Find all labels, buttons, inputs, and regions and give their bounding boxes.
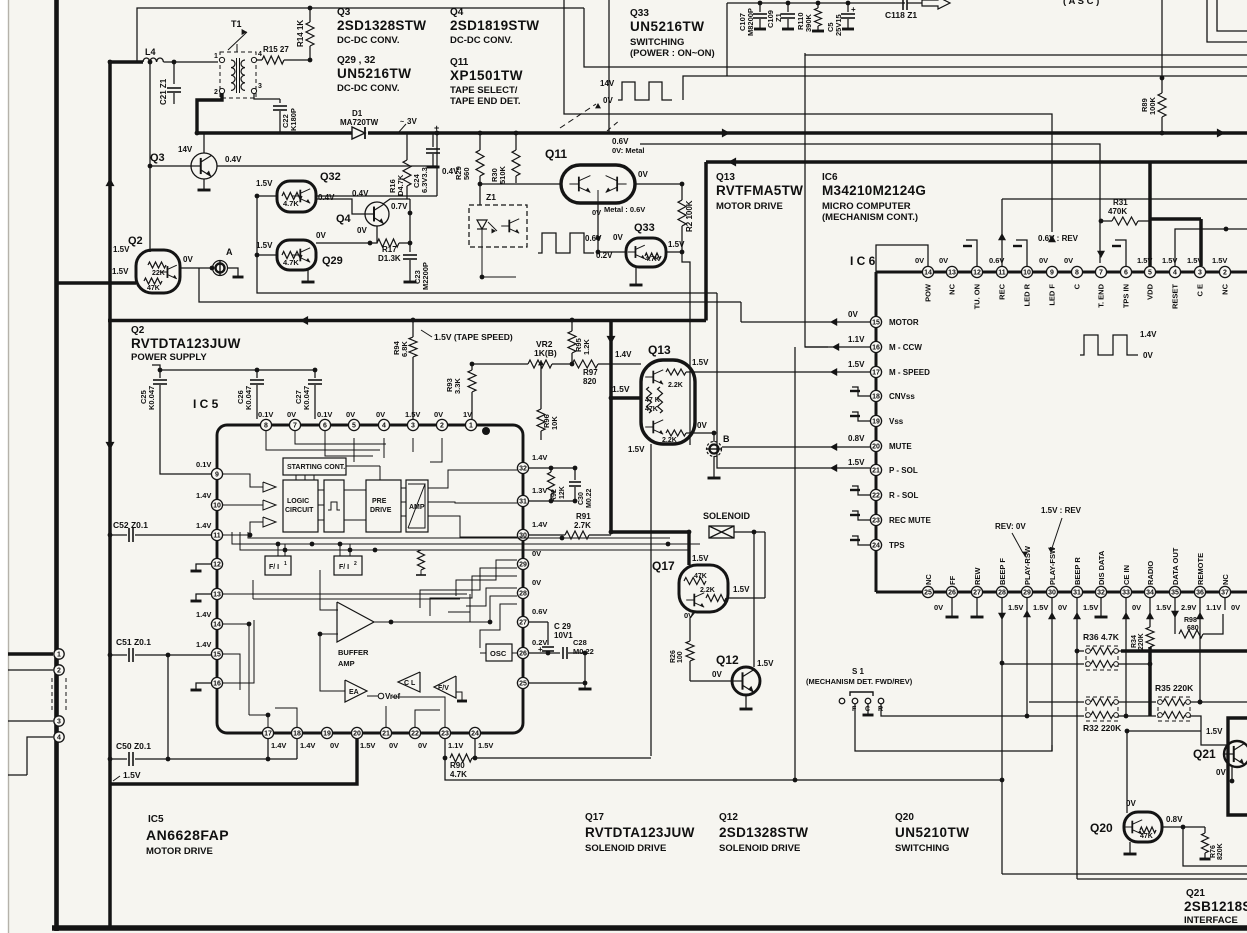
IC5 bus h1 — [232, 532, 700, 544]
wire Q21 em — [1231, 767, 1233, 781]
wire y55 — [805, 53, 1247, 55]
svg-text:0V: 0V — [389, 741, 398, 750]
IC6 pin 28 BEEP F — [996, 586, 1007, 597]
svg-text:R2 100K: R2 100K — [685, 200, 694, 232]
svg-text:560: 560 — [462, 167, 471, 180]
svg-text:390K: 390K — [804, 13, 813, 32]
squarewave IC6 — [1080, 335, 1138, 355]
svg-text:I C 5: I C 5 — [193, 397, 219, 411]
wire x690 down — [682, 252, 690, 445]
svg-text:BEEP R: BEEP R — [1073, 557, 1082, 585]
wire Q12 base — [690, 680, 732, 682]
svg-text:BEEP F: BEEP F — [998, 558, 1007, 585]
svg-text:MOTOR DRIVE: MOTOR DRIVE — [716, 201, 783, 212]
svg-text:C50 Z0.1: C50 Z0.1 — [116, 741, 151, 751]
svg-text:0V: 0V — [684, 611, 693, 620]
svg-text:0.8V: 0.8V — [848, 434, 865, 443]
internal resistor — [418, 550, 425, 570]
svg-text:K0.047: K0.047 — [147, 386, 156, 410]
svg-text:Q3: Q3 — [337, 7, 351, 18]
IC5 pin 6 — [319, 419, 330, 430]
wire Q4 collector — [383, 199, 410, 204]
svg-text:47K: 47K — [645, 406, 658, 413]
IC6 pin 11 REC — [996, 266, 1007, 277]
svg-text:0V: Metal: 0V: Metal — [612, 146, 645, 155]
wire T1 pin2 thick — [197, 93, 222, 133]
capacitor C118 Z1 — [902, 0, 904, 10]
svg-text:1.5V : REV: 1.5V : REV — [1041, 506, 1082, 515]
svg-text:+: + — [851, 5, 856, 14]
IC5 pin 12 — [211, 558, 222, 569]
svg-text:Q17: Q17 — [652, 559, 675, 573]
IC6 pin 29 PLAY-RSW — [1021, 586, 1032, 597]
wire Q20 base — [1126, 731, 1128, 813]
svg-text:1.5V: 1.5V — [112, 267, 129, 276]
svg-text:4: 4 — [1173, 270, 1177, 277]
resistor R2 100K — [681, 184, 683, 200]
svg-text:23: 23 — [441, 731, 449, 738]
IC5 wire 10 — [223, 504, 263, 506]
wire R36 net — [1079, 650, 1084, 652]
switch S1 — [839, 698, 845, 704]
wire Q4 base — [316, 199, 365, 214]
svg-text:6.3V3.3: 6.3V3.3 — [420, 167, 429, 193]
IC6 pin 8 C — [1071, 266, 1082, 277]
svg-text:15: 15 — [213, 652, 221, 659]
svg-text:Z1: Z1 — [486, 192, 496, 202]
transistor pack Q32 — [277, 181, 316, 212]
svg-text:4.7K: 4.7K — [283, 258, 299, 267]
wire Q2 out 0V — [180, 267, 212, 269]
capacitor C22 K180P — [279, 99, 281, 103]
resistor pair R35 220K — [1158, 697, 1190, 721]
svg-text:3: 3 — [411, 423, 415, 430]
IC5 pin 7 — [289, 419, 300, 430]
svg-text:470K: 470K — [1108, 207, 1127, 216]
svg-text:DC-DC CONV.: DC-DC CONV. — [450, 35, 512, 46]
transistor pack Q13 — [641, 360, 695, 444]
svg-text:0V: 0V — [532, 578, 541, 587]
svg-text:C52 Z0.1: C52 Z0.1 — [113, 520, 148, 530]
svg-text:4: 4 — [382, 423, 386, 430]
wire C26 to pin6 — [257, 418, 325, 420]
wire pin32 R92 — [529, 467, 551, 469]
wire pin28 — [1001, 598, 1003, 874]
IC5 pin 22 — [409, 727, 420, 738]
block BUFFER AMP — [337, 602, 374, 642]
IC6 pin 26 FF — [946, 586, 957, 597]
thick wire to L4 — [108, 60, 143, 63]
wire y758 long — [475, 757, 651, 759]
svg-text:30: 30 — [519, 533, 527, 540]
IC6 pin 33 CE IN — [1120, 586, 1131, 597]
svg-text:R76: R76 — [1210, 845, 1217, 858]
svg-text:VDD: VDD — [1146, 283, 1155, 299]
IC5 pin 17 — [262, 727, 273, 738]
wire Q17 right — [728, 597, 765, 599]
svg-text:2: 2 — [214, 89, 218, 96]
IC5 wire pin15 link — [190, 646, 200, 648]
svg-text:MUTE: MUTE — [889, 442, 912, 451]
svg-text:DIS DATA: DIS DATA — [1097, 550, 1106, 585]
block STARTING CONT — [283, 458, 346, 475]
transistor Q12 — [732, 667, 760, 695]
svg-text:Q13: Q13 — [648, 343, 671, 357]
svg-text:1.2K: 1.2K — [582, 339, 591, 355]
svg-text:0V: 0V — [357, 226, 367, 235]
inductor L4 — [143, 58, 163, 62]
flag pin22 — [852, 486, 870, 495]
wire Q20 out down — [1183, 827, 1247, 866]
svg-text:M - CCW: M - CCW — [889, 343, 922, 352]
svg-text:6: 6 — [1124, 270, 1128, 277]
svg-text:30: 30 — [1048, 590, 1056, 597]
svg-text:(POWER : ON~ON): (POWER : ON~ON) — [630, 48, 715, 59]
wire T1 pin3 to C22 — [254, 93, 280, 99]
svg-text:1.5V: 1.5V — [1206, 727, 1223, 736]
svg-text:1.5V (TAPE SPEED): 1.5V (TAPE SPEED) — [434, 332, 513, 342]
IC5 pin 26 — [517, 647, 528, 658]
IC5 pin 4 — [378, 419, 389, 430]
wire y67 — [584, 8, 1247, 67]
svg-text:47 K: 47 K — [645, 397, 660, 404]
svg-text:Q20: Q20 — [1090, 821, 1113, 835]
IC5 wire amp out — [428, 470, 517, 488]
svg-text:25: 25 — [924, 590, 932, 597]
svg-text:6: 6 — [323, 423, 327, 430]
svg-text:TPS IN: TPS IN — [1122, 284, 1131, 308]
svg-text:14V: 14V — [178, 145, 193, 154]
resistor pair R36 4.7K — [1086, 646, 1118, 670]
svg-text:R32 220K: R32 220K — [1083, 723, 1122, 733]
capacitor C5 25V15 — [846, 1, 851, 6]
svg-text:0V: 0V — [434, 410, 443, 419]
IC6 pin 36 REMOTE — [1194, 586, 1205, 597]
IC6 pin 25 NC — [922, 586, 933, 597]
svg-text:REMOTE: REMOTE — [1196, 553, 1205, 585]
svg-text:0.6V : REV: 0.6V : REV — [1038, 234, 1079, 243]
wire pin34 R34 — [1149, 598, 1151, 627]
flag pin24 — [852, 536, 870, 545]
IC5 pin 11 — [211, 529, 222, 540]
capacitor C23 M2200P — [409, 243, 411, 252]
block PRE DRIVE — [366, 480, 401, 532]
svg-text:1.5V: 1.5V — [256, 179, 273, 188]
svg-text:2.9V: 2.9V — [1181, 603, 1196, 612]
IC5 pin 18 — [291, 727, 302, 738]
svg-text:14V: 14V — [600, 79, 615, 88]
IC5 pin 15 — [211, 648, 222, 659]
svg-text:0V: 0V — [1058, 603, 1067, 612]
svg-text:1.5V: 1.5V — [123, 770, 141, 780]
svg-text:47K: 47K — [694, 573, 707, 580]
wire R95 junction — [570, 362, 575, 367]
svg-text:2: 2 — [57, 668, 61, 675]
svg-text:22: 22 — [872, 493, 880, 500]
IC6 pin 15 MOTOR — [870, 316, 881, 327]
svg-text:1.5V: 1.5V — [733, 585, 750, 594]
thick corner x706 — [704, 162, 708, 321]
svg-text:T1: T1 — [231, 19, 242, 29]
IC5 pin 29 — [517, 558, 528, 569]
svg-text:C L: C L — [404, 680, 416, 687]
ground near A — [227, 268, 238, 276]
svg-text:0V: 0V — [592, 208, 601, 217]
gnd FV — [456, 692, 462, 700]
vref — [367, 695, 378, 697]
svg-text:M34210M2124G: M34210M2124G — [822, 183, 926, 198]
wire Q29 bottom link — [316, 261, 345, 263]
wire conn pin1 — [8, 652, 53, 655]
block F/V — [434, 676, 456, 698]
svg-text:13: 13 — [213, 592, 221, 599]
svg-text:0V: 0V — [1132, 603, 1141, 612]
svg-text:NC: NC — [1221, 574, 1230, 585]
svg-text:21: 21 — [382, 731, 390, 738]
svg-text:18: 18 — [293, 731, 301, 738]
resistor R94 6.8K — [411, 318, 416, 323]
svg-text:0V: 0V — [1064, 256, 1073, 265]
svg-text:1.5V: 1.5V — [360, 741, 375, 750]
svg-text:820: 820 — [583, 377, 597, 386]
wire Q11 emitter down — [597, 203, 599, 252]
wire Q4 emitter — [370, 226, 377, 243]
svg-text:1.5V: 1.5V — [757, 659, 774, 668]
svg-text:SWITCHING: SWITCHING — [630, 37, 684, 48]
svg-text:F/ I: F/ I — [269, 564, 279, 571]
svg-text:T. END: T. END — [1097, 283, 1106, 307]
svg-text:0.6V: 0.6V — [532, 607, 547, 616]
IC5 pin 19 — [321, 727, 332, 738]
IC5 pin 30 — [517, 529, 528, 540]
flag pin12 — [966, 240, 977, 266]
svg-text:0.7V: 0.7V — [391, 202, 408, 211]
diode D1 MA720TW — [352, 127, 365, 139]
capacitor C30 M0.22 — [574, 468, 576, 480]
T1 pin 4 — [251, 57, 256, 62]
IC5 wire pre-amp — [401, 487, 406, 489]
svg-text:Z1: Z1 — [774, 13, 783, 22]
vertical wire x150 — [149, 62, 151, 252]
svg-text:100: 100 — [677, 651, 684, 663]
thick bus y162 — [706, 160, 1247, 164]
svg-text:IC5: IC5 — [148, 814, 164, 825]
svg-text:0V: 0V — [848, 310, 858, 319]
arrow pin7 — [1097, 251, 1105, 258]
svg-text:0V: 0V — [638, 170, 648, 179]
svg-text:Q32: Q32 — [320, 171, 341, 183]
wire y3 top — [727, 2, 905, 4]
svg-text:R90: R90 — [450, 761, 465, 770]
svg-text:14: 14 — [213, 622, 221, 629]
svg-text:10K: 10K — [550, 416, 559, 430]
wire Q12 emitter — [745, 694, 747, 708]
svg-text:27: 27 — [973, 590, 981, 597]
IC6 pin 32 DIS DATA — [1095, 586, 1106, 597]
left page border thick wire — [54, 0, 59, 931]
IC6 pin 16 M - CCW — [870, 341, 881, 352]
wire pin18 down — [296, 739, 298, 759]
svg-text:Q21: Q21 — [1186, 888, 1205, 899]
svg-text:Q17: Q17 — [585, 812, 604, 823]
svg-text:Q29 , 32: Q29 , 32 — [337, 55, 376, 66]
wire pin25 gnd — [529, 682, 585, 684]
svg-text:0V: 0V — [1039, 256, 1048, 265]
svg-text:Q33: Q33 — [630, 8, 649, 19]
svg-text:0V: 0V — [330, 741, 339, 750]
wire y114 — [564, 0, 1052, 232]
svg-text:1.5V: 1.5V — [113, 245, 130, 254]
svg-text:LED R: LED R — [1023, 283, 1032, 306]
wire Q3 base — [150, 165, 191, 167]
connector A — [213, 261, 228, 276]
svg-text:AMP: AMP — [409, 504, 425, 511]
svg-text:1.4V: 1.4V — [300, 741, 315, 750]
svg-text:UN5210TW: UN5210TW — [895, 825, 970, 840]
svg-text:1.5V: 1.5V — [692, 358, 709, 367]
IC6 corner pin14 jog — [876, 245, 928, 272]
arrow left bus y320 — [300, 316, 308, 325]
svg-text:CNVss: CNVss — [889, 392, 915, 401]
svg-text:( A S C ): ( A S C ) — [1063, 0, 1099, 7]
resistor R93 3.3K — [471, 364, 473, 370]
IC6 pin 30 PLAY-FSW — [1046, 586, 1057, 597]
svg-text:1.4V: 1.4V — [615, 350, 632, 359]
svg-text:0.1V: 0.1V — [196, 460, 211, 469]
transformer T1 dashed box — [220, 52, 256, 98]
resistor R90 4.7K — [450, 754, 472, 762]
resistor R97 820 — [572, 360, 598, 368]
wire Q11 top — [597, 120, 599, 165]
wire under Q2 y293 — [198, 293, 200, 302]
IC5 fan wires — [420, 568, 517, 608]
resistor R29 560 — [479, 133, 481, 150]
IC6 pin 4 RESET — [1169, 266, 1180, 277]
svg-text:PLAY-RSW: PLAY-RSW — [1023, 545, 1032, 585]
IC6 pin 10 LED R — [1021, 266, 1032, 277]
svg-text:0.4V: 0.4V — [225, 155, 242, 164]
transformer T1 windings — [231, 60, 235, 90]
svg-text:CIRCUIT: CIRCUIT — [285, 507, 314, 514]
svg-text:2SD1328STW: 2SD1328STW — [337, 18, 426, 33]
connector dashed box — [51, 678, 53, 713]
svg-text:20: 20 — [353, 731, 361, 738]
svg-text:0V: 0V — [183, 255, 193, 264]
svg-text:0.1V: 0.1V — [258, 410, 273, 419]
svg-text:36: 36 — [1196, 590, 1204, 597]
bottom page border thick bar — [52, 925, 1247, 931]
IC5 pin 24 — [469, 727, 480, 738]
svg-text:Q11: Q11 — [450, 57, 469, 68]
IC5 pin 1 — [465, 419, 476, 430]
thick vertical x611 — [609, 320, 613, 532]
connector pin 1 — [54, 649, 64, 659]
svg-text:REW: REW — [973, 567, 982, 585]
IC6 pin 34 RADIO — [1144, 586, 1155, 597]
thick y651 — [1121, 649, 1247, 653]
svg-text:28: 28 — [998, 590, 1006, 597]
svg-text:1.5V: 1.5V — [848, 360, 865, 369]
svg-text:REV: 0V: REV: 0V — [995, 522, 1026, 531]
svg-text:R26: R26 — [670, 650, 677, 663]
svg-text:REC MUTE: REC MUTE — [889, 516, 931, 525]
svg-text:D1.3K: D1.3K — [378, 254, 401, 263]
svg-text:1.4V: 1.4V — [196, 521, 211, 530]
capacitor C21 Z1 — [173, 62, 175, 84]
wire pin15 — [741, 321, 870, 323]
svg-text:2: 2 — [440, 423, 444, 430]
block F/I1 — [265, 556, 291, 575]
wire x683 — [683, 74, 940, 76]
svg-text:24: 24 — [471, 731, 479, 738]
svg-text:Q13: Q13 — [716, 172, 735, 183]
svg-text:100K: 100K — [1148, 96, 1157, 115]
IC5 drop logic1 — [231, 532, 233, 537]
svg-text:LOGIC: LOGIC — [287, 498, 309, 505]
svg-text:31: 31 — [1073, 590, 1081, 597]
svg-text:SOLENOID: SOLENOID — [703, 511, 751, 521]
IC6 pin 9 LED F — [1046, 266, 1057, 277]
IC5 body — [217, 425, 523, 733]
wire Q32 right — [316, 195, 437, 197]
svg-text:0V: 0V — [316, 231, 326, 240]
svg-text:37: 37 — [1221, 590, 1229, 597]
wire x609 vertical — [608, 0, 610, 133]
svg-text:SWITCHING: SWITCHING — [895, 843, 949, 854]
svg-text:32: 32 — [1097, 590, 1105, 597]
long wire y302 — [199, 268, 741, 302]
svg-text:2: 2 — [354, 561, 357, 567]
wire Q13 right out — [692, 432, 714, 434]
IC6 pin 35 DATA OUT — [1169, 586, 1180, 597]
wire Q29 gnd — [307, 270, 309, 281]
svg-text:0V: 0V — [1143, 351, 1153, 360]
buffer tri 2 — [263, 500, 276, 510]
thick wire pin20 — [110, 739, 357, 784]
vertical x564 top — [563, 0, 565, 1]
svg-text:0.4V: 0.4V — [352, 189, 369, 198]
wire Q11 base drop — [515, 183, 517, 277]
wire top y8 loop — [137, 8, 584, 62]
ground B — [713, 456, 715, 477]
wire C25 down — [159, 385, 161, 474]
svg-text:Q12: Q12 — [716, 653, 739, 667]
svg-text:0V: 0V — [712, 670, 722, 679]
svg-text:1.1V: 1.1V — [448, 741, 463, 750]
svg-text:Q4: Q4 — [450, 7, 464, 18]
transistor pack Q11 — [561, 165, 635, 203]
svg-text:MICRO COMPUTER: MICRO COMPUTER — [822, 201, 911, 212]
thick bus wire y133 — [196, 131, 352, 134]
resistor R89 100K — [1161, 0, 1163, 93]
svg-text:820K: 820K — [1217, 843, 1224, 860]
wire Q20 out — [1162, 826, 1183, 828]
svg-text:3: 3 — [258, 83, 262, 90]
thick x1150 low — [1148, 647, 1152, 716]
wire pin4 up — [1175, 229, 1247, 266]
T1 pin 2 — [219, 88, 224, 93]
IC6 pin 13 NC — [946, 266, 957, 277]
thick solenoid wire — [611, 530, 689, 534]
IC5 pin 9 — [211, 468, 222, 479]
svg-text:34: 34 — [1146, 590, 1154, 597]
svg-text:M2200P: M2200P — [421, 262, 430, 290]
wire VR2 wiper — [540, 364, 542, 409]
svg-text:5: 5 — [1148, 270, 1152, 277]
T1 pin 3 — [251, 88, 256, 93]
svg-text:18: 18 — [872, 394, 880, 401]
node L4 junction — [108, 60, 113, 65]
